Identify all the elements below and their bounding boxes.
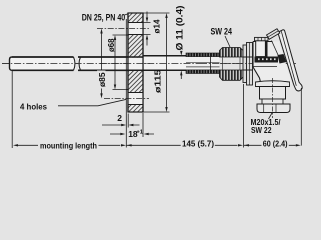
svg-text:SW 22: SW 22	[251, 126, 272, 135]
svg-text:ø68: ø68	[107, 38, 116, 52]
svg-text:ø115: ø115	[154, 69, 163, 93]
svg-text:Ø 11 (0.4): Ø 11 (0.4)	[175, 5, 185, 50]
svg-text:ø85: ø85	[98, 72, 107, 87]
svg-text:145 (5.7): 145 (5.7)	[182, 138, 214, 148]
svg-text:60 (2.4): 60 (2.4)	[263, 138, 288, 148]
svg-text:SW 24: SW 24	[211, 27, 233, 37]
svg-text:mounting length: mounting length	[40, 141, 97, 151]
svg-text:DN 25, PN 40: DN 25, PN 40	[82, 12, 126, 22]
svg-text:+1: +1	[136, 130, 143, 136]
svg-text:2: 2	[117, 113, 122, 123]
svg-text:ø14: ø14	[153, 19, 162, 33]
svg-text:4 holes: 4 holes	[20, 102, 47, 112]
